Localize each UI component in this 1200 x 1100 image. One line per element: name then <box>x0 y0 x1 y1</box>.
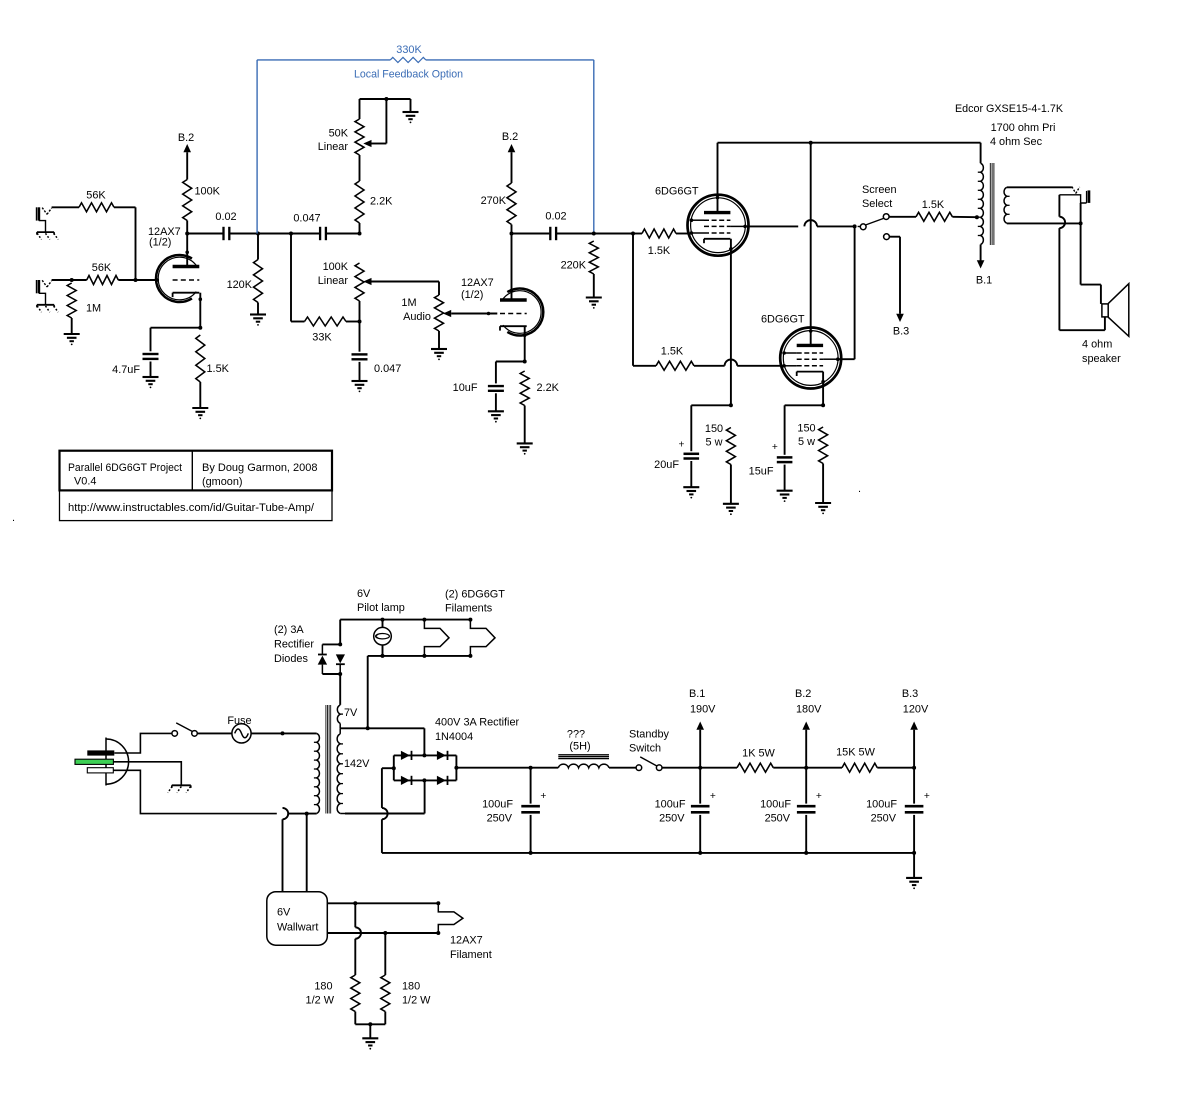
svg-text:50K: 50K <box>329 128 349 140</box>
svg-text:+: + <box>816 791 822 802</box>
svg-text:4.7uF: 4.7uF <box>112 364 140 376</box>
svg-text:15uF: 15uF <box>749 466 774 478</box>
svg-text:+: + <box>679 440 685 451</box>
svg-text:0.047: 0.047 <box>293 213 320 225</box>
svg-text:(1/2): (1/2) <box>461 289 483 301</box>
svg-text:6V: 6V <box>357 588 371 600</box>
svg-text:1M: 1M <box>401 297 416 309</box>
svg-text:0.02: 0.02 <box>215 211 236 223</box>
svg-text:180: 180 <box>402 981 420 993</box>
svg-text:???: ??? <box>567 729 585 741</box>
svg-text:1K 5W: 1K 5W <box>742 748 775 760</box>
svg-text:B.2: B.2 <box>502 131 518 143</box>
svg-text:15K 5W: 15K 5W <box>836 747 875 759</box>
svg-text:10uF: 10uF <box>453 382 478 394</box>
svg-text:Switch: Switch <box>629 743 661 755</box>
svg-text:250V: 250V <box>871 813 897 825</box>
svg-text:150: 150 <box>705 423 723 435</box>
svg-text:1.5K: 1.5K <box>648 245 671 257</box>
svg-text:Screen: Screen <box>862 184 897 196</box>
svg-text:Rectifier: Rectifier <box>274 639 314 651</box>
svg-text:2.2K: 2.2K <box>370 196 393 208</box>
svg-text:V0.4: V0.4 <box>74 476 96 488</box>
svg-text:7V: 7V <box>344 707 358 719</box>
svg-text:Pilot lamp: Pilot lamp <box>357 602 405 614</box>
svg-text:250V: 250V <box>765 813 791 825</box>
svg-text:speaker: speaker <box>1082 353 1121 365</box>
svg-text:180: 180 <box>314 981 332 993</box>
svg-text:100K: 100K <box>323 261 349 273</box>
svg-text:1700 ohm Pri: 1700 ohm Pri <box>991 122 1056 134</box>
svg-text:190V: 190V <box>690 704 716 716</box>
svg-text:B.3: B.3 <box>902 688 918 700</box>
svg-text:120V: 120V <box>903 704 929 716</box>
svg-text:.: . <box>12 512 15 524</box>
svg-text:12AX7: 12AX7 <box>461 277 494 289</box>
svg-text:B.1: B.1 <box>976 275 992 287</box>
svg-text:180V: 180V <box>796 704 822 716</box>
svg-text:Local Feedback Option: Local Feedback Option <box>354 69 463 81</box>
svg-text:Fuse: Fuse <box>227 715 251 727</box>
svg-text:5 w: 5 w <box>798 436 815 448</box>
svg-text:B.2: B.2 <box>795 688 811 700</box>
svg-text:220K: 220K <box>561 260 587 272</box>
svg-text:0.02: 0.02 <box>545 211 566 223</box>
svg-text:Diodes: Diodes <box>274 653 308 665</box>
svg-text:(2) 6DG6GT: (2) 6DG6GT <box>445 589 505 601</box>
svg-text:20uF: 20uF <box>654 459 679 471</box>
svg-text:Audio: Audio <box>403 311 431 323</box>
svg-text:1.5K: 1.5K <box>661 346 684 358</box>
svg-text:B.3: B.3 <box>893 326 909 338</box>
svg-text:Linear: Linear <box>318 275 349 287</box>
svg-text:.: . <box>858 483 861 495</box>
svg-text:100K: 100K <box>195 186 221 198</box>
svg-text:1.5K: 1.5K <box>922 199 945 211</box>
svg-text:6DG6GT: 6DG6GT <box>761 314 805 326</box>
svg-text:1N4004: 1N4004 <box>435 731 473 743</box>
svg-text:150: 150 <box>797 423 815 435</box>
svg-text:120K: 120K <box>227 279 253 291</box>
svg-text:1/2 W: 1/2 W <box>306 995 335 1007</box>
svg-text:4 ohm Sec: 4 ohm Sec <box>990 136 1043 148</box>
svg-text:400V 3A Rectifier: 400V 3A Rectifier <box>435 717 520 729</box>
svg-text:1/2 W: 1/2 W <box>402 995 431 1007</box>
svg-text:+: + <box>710 791 716 802</box>
svg-text:Edcor GXSE15-4-1.7K: Edcor GXSE15-4-1.7K <box>955 103 1064 115</box>
svg-text:Filaments: Filaments <box>445 603 493 615</box>
svg-text:270K: 270K <box>481 195 507 207</box>
svg-text:6DG6GT: 6DG6GT <box>655 186 699 198</box>
svg-text:250V: 250V <box>659 813 685 825</box>
svg-text:250V: 250V <box>487 813 513 825</box>
svg-text:56K: 56K <box>92 262 112 274</box>
svg-text:5 w: 5 w <box>706 437 723 449</box>
svg-text:56K: 56K <box>86 190 106 202</box>
svg-text:330K: 330K <box>396 44 422 56</box>
svg-text:100uF: 100uF <box>760 799 791 811</box>
svg-text:Select: Select <box>862 198 892 210</box>
svg-text:100uF: 100uF <box>866 799 897 811</box>
svg-text:100uF: 100uF <box>655 799 686 811</box>
svg-text:+: + <box>540 791 546 802</box>
svg-text:12AX7: 12AX7 <box>450 935 483 947</box>
svg-text:33K: 33K <box>312 332 332 344</box>
svg-text:(1/2): (1/2) <box>149 237 171 249</box>
svg-text:B.2: B.2 <box>178 132 194 144</box>
svg-text:100uF: 100uF <box>482 799 513 811</box>
svg-text:142V: 142V <box>344 758 370 770</box>
svg-text:1.5K: 1.5K <box>207 363 230 375</box>
svg-text:6V: 6V <box>277 907 291 919</box>
svg-text:(2) 3A: (2) 3A <box>274 624 304 636</box>
svg-text:Filament: Filament <box>450 949 492 961</box>
svg-text:+: + <box>772 442 778 453</box>
svg-text:Wallwart: Wallwart <box>277 922 318 934</box>
svg-text:B.1: B.1 <box>689 688 705 700</box>
svg-text:By Doug Garmon, 2008: By Doug Garmon, 2008 <box>202 462 318 474</box>
svg-text:(gmoon): (gmoon) <box>202 476 243 488</box>
svg-text:4 ohm: 4 ohm <box>1082 339 1112 351</box>
svg-text:(5H): (5H) <box>569 741 590 753</box>
svg-text:Parallel 6DG6GT Project: Parallel 6DG6GT Project <box>68 462 182 474</box>
svg-text:http://www.instructables.com/i: http://www.instructables.com/id/Guitar-T… <box>68 502 315 514</box>
svg-text:2.2K: 2.2K <box>537 382 560 394</box>
svg-text:0.047: 0.047 <box>374 363 401 375</box>
svg-text:1M: 1M <box>86 303 101 315</box>
svg-text:Standby: Standby <box>629 729 670 741</box>
svg-text:Linear: Linear <box>318 141 349 153</box>
svg-text:+: + <box>924 791 930 802</box>
